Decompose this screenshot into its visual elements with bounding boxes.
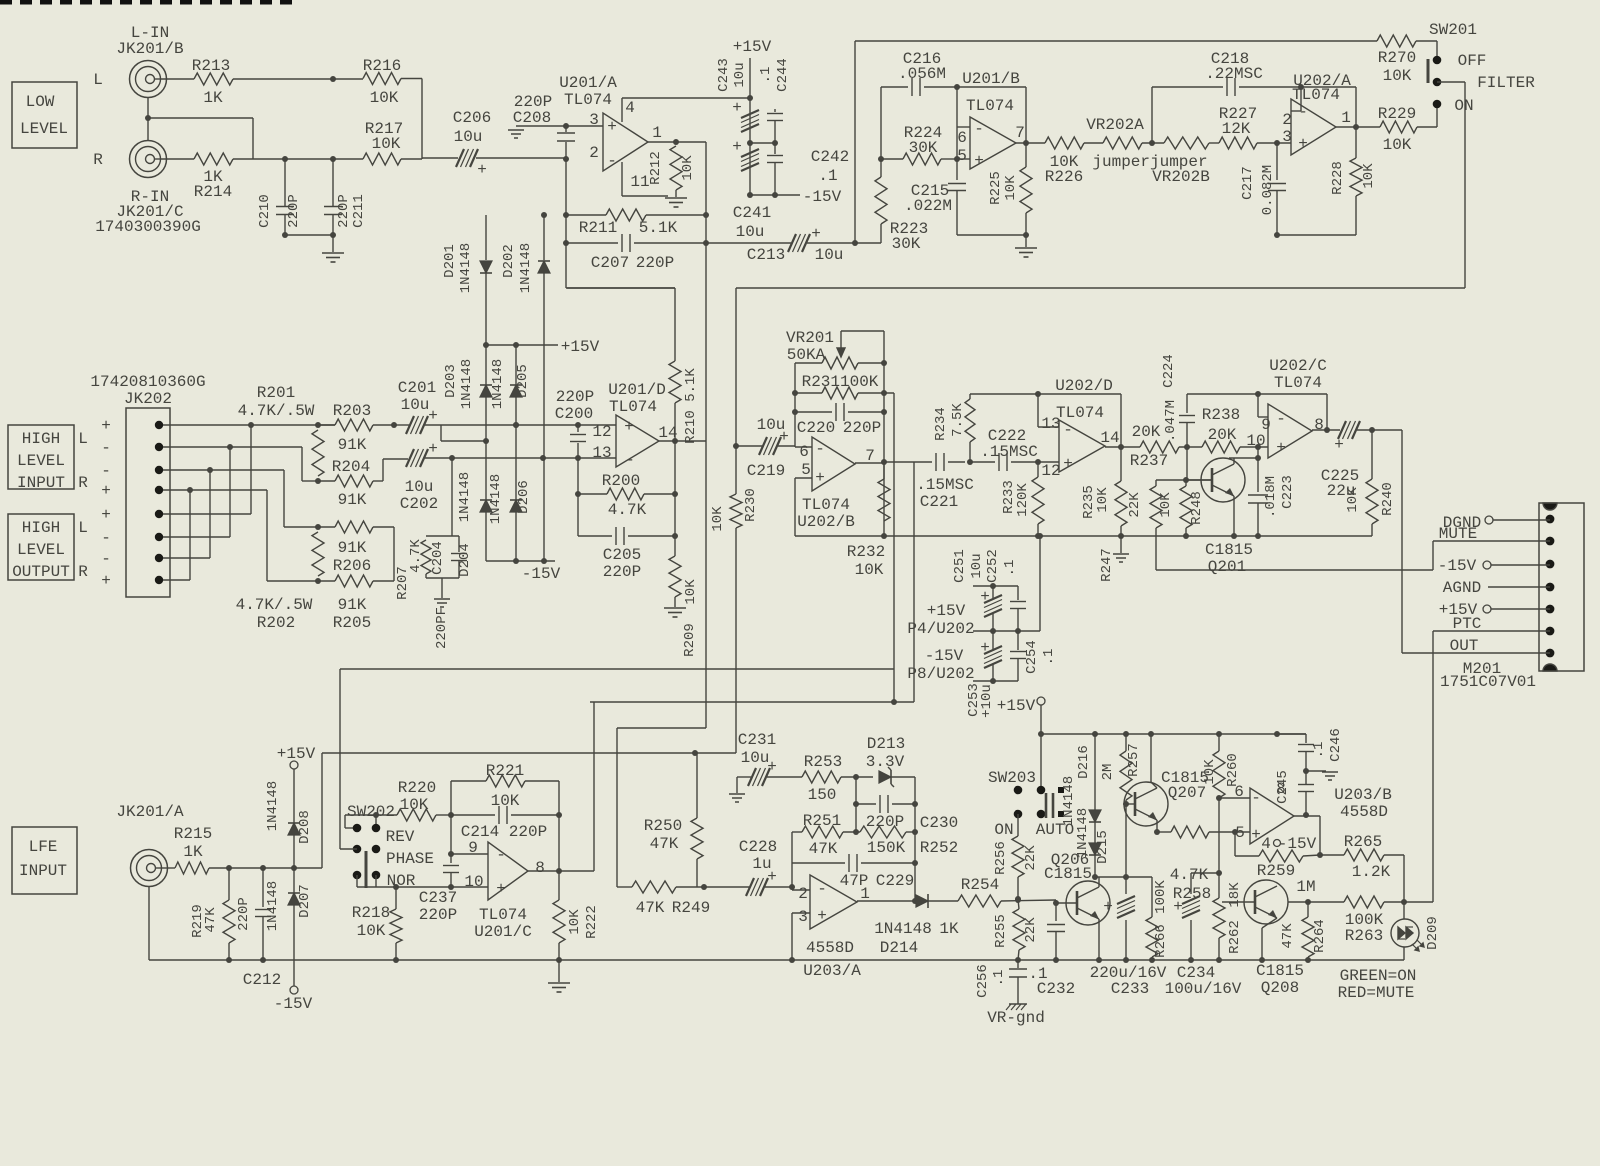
svg-text:2: 2 <box>798 885 808 903</box>
svg-text:+: + <box>817 907 827 925</box>
op-amp U202/B <box>812 437 855 491</box>
svg-text:10K: 10K <box>372 135 401 153</box>
svg-text:10K: 10K <box>1158 492 1174 518</box>
svg-text:4.7K: 4.7K <box>1170 866 1209 884</box>
resistor R232 <box>883 462 885 479</box>
svg-text:Q207: Q207 <box>1168 784 1206 802</box>
wire feedback <box>957 86 1026 88</box>
svg-text:C212: C212 <box>243 971 281 989</box>
svg-text:D205: D205 <box>515 364 531 398</box>
op-amp U203/A <box>810 875 857 929</box>
capacitor C202 <box>406 449 414 467</box>
wire <box>577 458 579 536</box>
svg-text:3: 3 <box>589 111 599 129</box>
power -15V row <box>750 194 800 196</box>
power supply caps C246 C245 <box>1277 733 1306 735</box>
resistor R238 <box>1202 441 1240 453</box>
svg-text:R265: R265 <box>1344 833 1382 851</box>
svg-text:+: + <box>1298 135 1308 153</box>
svg-text:C1815: C1815 <box>1044 865 1092 883</box>
svg-text:+: + <box>980 588 990 606</box>
svg-text:U203/B: U203/B <box>1334 786 1392 804</box>
resistor R218 <box>395 887 397 909</box>
wire right rail <box>883 331 885 536</box>
svg-text:5: 5 <box>957 147 967 165</box>
svg-text:TL074: TL074 <box>966 97 1014 115</box>
svg-text:L: L <box>78 430 88 448</box>
svg-text:R230: R230 <box>743 488 759 522</box>
capacitor C212 <box>262 868 264 907</box>
wire pin6 <box>1219 797 1250 799</box>
wire output <box>659 440 706 442</box>
svg-text:TL074: TL074 <box>609 398 657 416</box>
wire LFE line <box>322 752 736 754</box>
wire <box>1277 234 1356 236</box>
svg-text:R222: R222 <box>584 905 600 939</box>
svg-text:-15V: -15V <box>522 565 561 583</box>
wire step <box>440 425 442 441</box>
svg-text:+: + <box>732 99 742 117</box>
svg-text:5: 5 <box>1235 824 1245 842</box>
svg-text:D202: D202 <box>501 244 517 278</box>
wire <box>1403 947 1405 960</box>
svg-text:1N4148: 1N4148 <box>874 920 932 938</box>
svg-text:+: + <box>101 482 111 500</box>
svg-text:91K: 91K <box>338 491 367 509</box>
diode D203 <box>485 345 487 385</box>
svg-text:HIGH: HIGH <box>22 519 60 537</box>
svg-text:220P: 220P <box>236 897 252 931</box>
svg-text:R240: R240 <box>1380 482 1396 516</box>
svg-text:C204: C204 <box>430 541 446 575</box>
svg-text:PHASE: PHASE <box>386 850 434 868</box>
svg-text:C230: C230 <box>920 814 958 832</box>
wire filter loop left vertical <box>854 41 856 243</box>
resistor R249 <box>617 886 632 888</box>
svg-text:C237: C237 <box>419 889 457 907</box>
svg-text:.22MSC: .22MSC <box>1205 65 1263 83</box>
wire column x914 <box>913 462 915 702</box>
resistor R255 <box>1018 899 1019 909</box>
resistor R228 <box>1355 127 1357 158</box>
capacitor C201 <box>394 424 409 426</box>
svg-text:VR202B: VR202B <box>1152 168 1210 186</box>
svg-text:.018M: .018M <box>1263 476 1279 518</box>
svg-text:8: 8 <box>1314 416 1324 434</box>
svg-text:+15V: +15V <box>561 338 600 356</box>
resistor R201 <box>312 430 324 476</box>
svg-text:C245: C245 <box>1275 770 1291 804</box>
svg-text:FILTER: FILTER <box>1477 74 1535 92</box>
resistor R216 <box>363 73 401 85</box>
svg-text:R270: R270 <box>1378 49 1416 67</box>
wire pin4 <box>163 489 267 491</box>
wire pin8 <box>163 579 190 581</box>
capacitor C229 <box>792 862 845 864</box>
wire pin2 <box>792 889 810 891</box>
resistor R211 <box>566 214 606 216</box>
resistor VR202B <box>1164 137 1209 149</box>
svg-text:5.1K: 5.1K <box>639 219 678 237</box>
svg-text:+: + <box>101 417 111 435</box>
svg-text:R225: R225 <box>988 171 1004 205</box>
wire bus <box>795 535 1372 537</box>
svg-text:AGND: AGND <box>1443 579 1481 597</box>
capacitor C225 <box>1338 421 1346 439</box>
capacitor C213 <box>706 242 791 244</box>
svg-text:10K: 10K <box>1003 175 1019 201</box>
capacitor C217 <box>1276 143 1278 180</box>
svg-text:+: + <box>732 138 742 156</box>
svg-text:12K: 12K <box>1222 120 1251 138</box>
wire output pin7 <box>1016 142 1045 144</box>
svg-text:C200: C200 <box>555 405 593 423</box>
resistor R240 <box>1371 430 1373 479</box>
svg-text:91K: 91K <box>338 596 367 614</box>
svg-text:C211: C211 <box>351 194 367 228</box>
svg-text:R256: R256 <box>993 841 1009 875</box>
svg-text:.15MSC: .15MSC <box>916 476 974 494</box>
svg-text:10K: 10K <box>1345 487 1361 513</box>
wire riser to LFE filter <box>893 393 895 702</box>
wire pin2 <box>163 446 302 448</box>
svg-text:1N4148: 1N4148 <box>458 243 474 293</box>
svg-text:C205: C205 <box>603 546 641 564</box>
resistor R222 <box>558 871 560 900</box>
svg-text:+: + <box>815 469 825 487</box>
diode D216 <box>1094 734 1096 810</box>
svg-text:-15V: -15V <box>1438 557 1477 575</box>
resistor R231 <box>794 363 796 447</box>
ground <box>665 197 687 199</box>
svg-text:R205: R205 <box>333 614 371 632</box>
svg-text:1K: 1K <box>939 920 959 938</box>
svg-text:REV: REV <box>386 828 415 846</box>
resistor R262 <box>1218 873 1220 898</box>
power -15V tap <box>290 986 298 994</box>
svg-text:D206: D206 <box>516 480 532 514</box>
resistor R235 <box>1120 447 1122 481</box>
svg-text:C251: C251 <box>952 549 968 583</box>
svg-text:1N4148: 1N4148 <box>265 781 281 831</box>
wire mid <box>973 630 1040 632</box>
svg-text:OFF: OFF <box>1458 52 1487 70</box>
svg-text:TL074: TL074 <box>1056 404 1104 422</box>
svg-text:+10u: +10u <box>979 684 995 718</box>
svg-text:D203: D203 <box>443 364 459 398</box>
resistor R225 <box>1025 143 1027 167</box>
capacitor C207 <box>566 242 618 244</box>
svg-text:-: - <box>817 880 827 898</box>
svg-text:-: - <box>101 439 111 457</box>
resistor R264 <box>1305 899 1311 905</box>
svg-text:120K: 120K <box>1015 483 1031 517</box>
ground VR-gnd <box>1009 1003 1027 1005</box>
resistor R226 <box>1045 137 1084 149</box>
capacitor C224 <box>1186 394 1188 413</box>
capacitor C221 <box>935 453 937 471</box>
wire <box>160 158 194 160</box>
resistor R213 <box>194 73 233 85</box>
svg-text:+15V: +15V <box>997 697 1036 715</box>
svg-text:10K: 10K <box>567 909 583 935</box>
svg-text:150K: 150K <box>867 839 906 857</box>
svg-text:1K: 1K <box>203 89 223 107</box>
resistor R202 <box>312 532 324 576</box>
resistor R214 <box>194 153 233 165</box>
svg-text:C1815: C1815 <box>1256 962 1304 980</box>
wire pin5 <box>163 513 251 515</box>
svg-text:R209: R209 <box>682 623 698 657</box>
wire output U203/B <box>1294 815 1320 817</box>
svg-text:220P: 220P <box>286 194 302 228</box>
svg-text:10K: 10K <box>1383 67 1412 85</box>
capacitor C233 <box>1125 877 1127 894</box>
svg-text:1740300390G: 1740300390G <box>95 218 201 236</box>
wire <box>160 78 194 80</box>
svg-text:L: L <box>93 71 103 89</box>
svg-text:R234: R234 <box>933 407 949 441</box>
svg-text:1751C07V01: 1751C07V01 <box>1440 673 1536 691</box>
wire bottom <box>973 680 1018 682</box>
svg-text:.1: .1 <box>1041 649 1057 666</box>
svg-text:D214: D214 <box>880 939 918 957</box>
svg-text:+15V: +15V <box>927 602 966 620</box>
svg-text:.1: .1 <box>991 970 1007 987</box>
svg-text:R206: R206 <box>333 557 371 575</box>
svg-text:C246: C246 <box>1328 728 1344 762</box>
wire NOR to pin10 <box>356 875 358 887</box>
label HIGH LEVEL OUTPUT <box>8 514 74 580</box>
wire LFE riser <box>321 753 323 868</box>
svg-text:Q208: Q208 <box>1261 979 1299 997</box>
svg-text:22K: 22K <box>1023 917 1039 943</box>
svg-text:-: - <box>974 120 984 138</box>
svg-text:D208: D208 <box>297 810 313 844</box>
svg-text:7: 7 <box>1015 124 1025 142</box>
svg-text:LFE: LFE <box>29 838 58 856</box>
svg-text:3: 3 <box>798 908 808 926</box>
svg-text:1N4148: 1N4148 <box>490 359 506 409</box>
capacitor C242 <box>774 143 776 154</box>
svg-text:C232: C232 <box>1037 980 1075 998</box>
resistor R224 <box>881 158 903 160</box>
diode D215 <box>1094 822 1096 843</box>
diode D208 <box>288 823 300 835</box>
svg-text:+15V: +15V <box>733 38 772 56</box>
svg-text:D215: D215 <box>1095 830 1111 864</box>
svg-text:+: + <box>477 161 487 179</box>
svg-text:C254: C254 <box>1024 640 1040 674</box>
diode D205 <box>515 345 517 385</box>
svg-text:.056M: .056M <box>898 65 946 83</box>
capacitor C206 <box>422 157 458 159</box>
svg-text:C202: C202 <box>400 495 438 513</box>
svg-text:-: - <box>496 846 506 864</box>
svg-text:-15V: -15V <box>274 995 313 1013</box>
svg-text:30K: 30K <box>909 139 938 157</box>
svg-text:20K: 20K <box>1208 426 1237 444</box>
svg-text:+: + <box>624 418 634 436</box>
svg-text:P8/U202: P8/U202 <box>907 665 974 683</box>
capacitor C205 <box>578 535 612 537</box>
svg-text:-15V: -15V <box>925 647 964 665</box>
svg-text:10u: 10u <box>732 62 748 87</box>
svg-text:R211: R211 <box>579 219 617 237</box>
svg-text:47K: 47K <box>1280 923 1296 949</box>
svg-text:10K: 10K <box>683 579 699 605</box>
svg-text:30K: 30K <box>892 235 921 253</box>
svg-text:R252: R252 <box>920 839 958 857</box>
svg-text:10K: 10K <box>1095 487 1111 513</box>
wire pin6 <box>795 446 812 448</box>
capacitor C223 <box>1257 458 1259 492</box>
svg-text:1: 1 <box>652 124 662 142</box>
wire <box>747 140 753 146</box>
svg-text:SW202: SW202 <box>347 803 395 821</box>
wire <box>233 78 363 80</box>
svg-text:R263: R263 <box>1345 927 1383 945</box>
wire feedback row <box>970 393 1121 395</box>
svg-text:+: + <box>101 506 111 524</box>
svg-text:.022M: .022M <box>904 197 952 215</box>
resistor R230 <box>730 494 742 528</box>
capacitor C214 <box>451 814 495 816</box>
svg-text:1.2K: 1.2K <box>1352 863 1391 881</box>
svg-text:SW203: SW203 <box>988 769 1036 787</box>
wire pin1 <box>163 424 335 426</box>
svg-text:C229: C229 <box>876 872 914 890</box>
wire signal column to LFE mixer <box>705 669 707 728</box>
resistor R233 <box>1037 462 1039 477</box>
resistor R254 <box>958 895 1001 907</box>
svg-text:C233: C233 <box>1111 980 1149 998</box>
svg-text:LEVEL: LEVEL <box>20 120 68 138</box>
svg-text:1N4148: 1N4148 <box>459 359 475 409</box>
wire to bus <box>1039 536 1041 631</box>
svg-text:C208: C208 <box>513 109 551 127</box>
svg-text:OUTPUT: OUTPUT <box>12 563 70 581</box>
svg-text:2: 2 <box>589 144 599 162</box>
wire minus col <box>791 832 793 890</box>
label LOW LEVEL <box>12 82 77 148</box>
wire pin11 <box>621 162 623 196</box>
svg-text:VR-gnd: VR-gnd <box>987 1009 1045 1027</box>
diode D206 <box>515 425 517 500</box>
svg-text:-15V: -15V <box>803 188 842 206</box>
resistor R265 <box>1320 854 1344 856</box>
resistor R250 <box>696 753 698 818</box>
svg-text:C242: C242 <box>811 148 849 166</box>
resistor R207 capacitor C204 <box>451 458 453 536</box>
svg-text:.1: .1 <box>758 67 774 84</box>
svg-text:10K: 10K <box>710 506 726 532</box>
svg-text:+15V: +15V <box>277 745 316 763</box>
svg-text:8: 8 <box>535 859 545 877</box>
svg-text:.1: .1 <box>1002 560 1018 577</box>
ground <box>664 607 686 609</box>
svg-text:C224: C224 <box>1161 354 1177 388</box>
wire <box>957 234 1026 236</box>
resistor R251 <box>792 831 802 833</box>
svg-text:C206: C206 <box>453 109 491 127</box>
svg-text:Q201: Q201 <box>1208 558 1246 576</box>
svg-text:+: + <box>1251 826 1261 844</box>
svg-text:C244: C244 <box>775 58 791 92</box>
svg-text:14: 14 <box>1100 429 1119 447</box>
resistor R256 <box>1017 814 1019 836</box>
capacitor C234 <box>1191 872 1219 874</box>
wire out column <box>1401 430 1403 653</box>
svg-text:C252: C252 <box>985 549 1001 583</box>
capacitor C219 <box>736 445 762 447</box>
svg-text:C221: C221 <box>920 493 958 511</box>
svg-text:C201: C201 <box>398 379 436 397</box>
svg-text:11: 11 <box>630 173 649 191</box>
svg-text:C207: C207 <box>591 254 629 272</box>
svg-text:R216: R216 <box>363 57 401 75</box>
wire filter top <box>855 40 1377 42</box>
wire output pin1 <box>1336 126 1380 128</box>
resistor R266 <box>1151 877 1153 917</box>
svg-text:R255: R255 <box>993 914 1009 948</box>
op-amp U203/B <box>1250 788 1294 844</box>
svg-text:91K: 91K <box>338 539 367 557</box>
svg-text:U201/D: U201/D <box>608 381 666 399</box>
svg-text:R249: R249 <box>672 899 710 917</box>
svg-text:+: + <box>811 225 821 243</box>
svg-text:4.7K: 4.7K <box>608 501 647 519</box>
svg-text:JK202: JK202 <box>124 390 172 408</box>
svg-text:-: - <box>625 451 635 469</box>
wire <box>382 459 384 481</box>
ground <box>558 960 560 982</box>
svg-text:INPUT: INPUT <box>19 862 67 880</box>
svg-text:U203/A: U203/A <box>803 962 861 980</box>
svg-text:+: + <box>101 572 111 590</box>
wire pin4 <box>621 98 623 122</box>
svg-text:LEVEL: LEVEL <box>17 541 65 559</box>
wire feedback <box>1301 86 1356 88</box>
svg-text:RED=MUTE: RED=MUTE <box>1338 984 1415 1002</box>
wire output <box>857 900 917 902</box>
svg-text:-: - <box>101 550 111 568</box>
power +15V rail <box>1041 733 1306 735</box>
wire <box>880 87 882 159</box>
svg-text:12: 12 <box>1041 462 1060 480</box>
svg-text:TL074: TL074 <box>1274 374 1322 392</box>
svg-text:D201: D201 <box>442 244 458 278</box>
svg-text:10u: 10u <box>736 223 765 241</box>
svg-text:R262: R262 <box>1227 920 1243 954</box>
svg-text:D216: D216 <box>1076 745 1092 779</box>
svg-text:220P: 220P <box>509 823 547 841</box>
svg-text:-: - <box>1063 421 1073 439</box>
svg-text:C214: C214 <box>461 823 499 841</box>
wire collector row <box>1095 876 1152 878</box>
resistor R229 <box>1380 121 1417 133</box>
resistor R270 <box>1377 35 1416 47</box>
wire pin9 <box>451 853 488 855</box>
resistor R212 <box>670 146 682 190</box>
wire filter column <box>735 446 737 494</box>
svg-text:+: + <box>974 152 984 170</box>
svg-text:10u: 10u <box>401 396 430 414</box>
svg-text:R238: R238 <box>1202 406 1240 424</box>
svg-text:D207: D207 <box>297 884 313 918</box>
svg-text:C228: C228 <box>739 838 777 856</box>
svg-text:10u: 10u <box>969 553 985 578</box>
